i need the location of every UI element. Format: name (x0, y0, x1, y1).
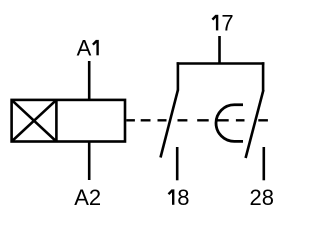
wire right fixed contact (262, 62, 265, 90)
wire 18 terminal (176, 147, 179, 180)
wire top bar (177, 62, 265, 65)
time-delay symbol (semicircle) (216, 105, 243, 142)
wire left fixed contact (177, 62, 180, 90)
svg-text:28: 28 (250, 185, 274, 210)
mechanical link (dashed) (126, 119, 268, 121)
wire A2 lead (88, 142, 91, 181)
label A1 digit 1 (93, 40, 98, 55)
coil divider (55, 100, 58, 142)
contact blade 28 (NO, delayed) (246, 90, 264, 158)
coil X diagonal 1 (12, 100, 57, 142)
contact blade 18 (NO) (161, 90, 178, 158)
wire 28 terminal (262, 147, 265, 180)
wire 17 lead (218, 36, 221, 65)
svg-text:8: 8 (177, 185, 189, 210)
svg-text:A2: A2 (74, 185, 101, 210)
svg-text:7: 7 (221, 10, 233, 35)
coil K1 body (12, 100, 125, 142)
svg-text:A: A (77, 36, 92, 61)
coil X diagonal 2 (12, 100, 57, 142)
label 17 digit 1 (212, 15, 217, 31)
label 18 digit 1 (169, 189, 174, 204)
wire A1 lead (88, 61, 91, 100)
